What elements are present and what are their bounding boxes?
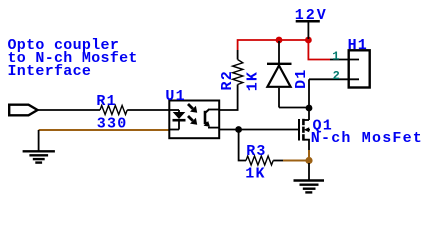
node source junction dot (brown) [305, 157, 312, 164]
optocoupler U1 [169, 101, 219, 139]
LED emission arrows [188, 104, 197, 125]
node junction dot on rail at 12V [305, 37, 312, 44]
title text [8, 37, 138, 80]
svg-text:D1: D1 [293, 68, 310, 88]
svg-text:1: 1 [332, 50, 339, 64]
wire brown: ground to U1 cathode [39, 129, 169, 131]
wire port to R1 [38, 109, 101, 111]
wire U1 collector to R2 [219, 85, 238, 111]
wire H1 pin2 to drain node [308, 79, 310, 108]
12V power symbol [295, 7, 328, 39]
svg-text:1K: 1K [245, 71, 262, 91]
H1 body [349, 50, 370, 87]
node drain junction dot [306, 105, 313, 112]
wire brown: R3 to source node [283, 160, 309, 162]
wire U1 emitter to node [219, 129, 239, 131]
svg-text:12V: 12V [295, 7, 328, 24]
node junction dot on rail at D1 [276, 37, 283, 44]
resistor R3 [239, 130, 283, 183]
svg-text:1K: 1K [245, 166, 265, 183]
diode D1 [267, 41, 310, 108]
wire gate from emitter node [239, 129, 298, 131]
svg-text:R2: R2 [219, 70, 236, 90]
wire red: R2 to 12V rail [238, 40, 309, 50]
wire R1 to U1 [127, 109, 169, 111]
wire H1 pin 2 stub [309, 78, 359, 80]
LED inside U1 [170, 110, 186, 130]
resistor R1 [100, 106, 127, 115]
wire D1 to drain node [279, 107, 309, 109]
wire red: rail to H1 pin 1 [308, 40, 330, 60]
wire brown: source to node [308, 150, 310, 157]
H1 pin 1 stub [330, 59, 359, 61]
svg-text:U1: U1 [165, 88, 185, 105]
resistor R2 [233, 60, 243, 85]
ground (left) [23, 130, 55, 163]
svg-text:H1: H1 [348, 37, 368, 54]
input port connector [9, 105, 37, 116]
phototransistor inside U1 [204, 110, 219, 128]
svg-text:Interface: Interface [8, 63, 92, 80]
svg-text:R3: R3 [246, 143, 266, 160]
svg-text:2: 2 [333, 69, 340, 83]
node emitter junction dot [235, 126, 242, 133]
transistor Q1 N-ch MOSFET [299, 108, 310, 150]
svg-text:R1: R1 [96, 93, 116, 110]
connector H1 [309, 37, 370, 88]
svg-text:N-ch MosFet: N-ch MosFet [311, 130, 423, 147]
ground (right) [294, 163, 325, 192]
